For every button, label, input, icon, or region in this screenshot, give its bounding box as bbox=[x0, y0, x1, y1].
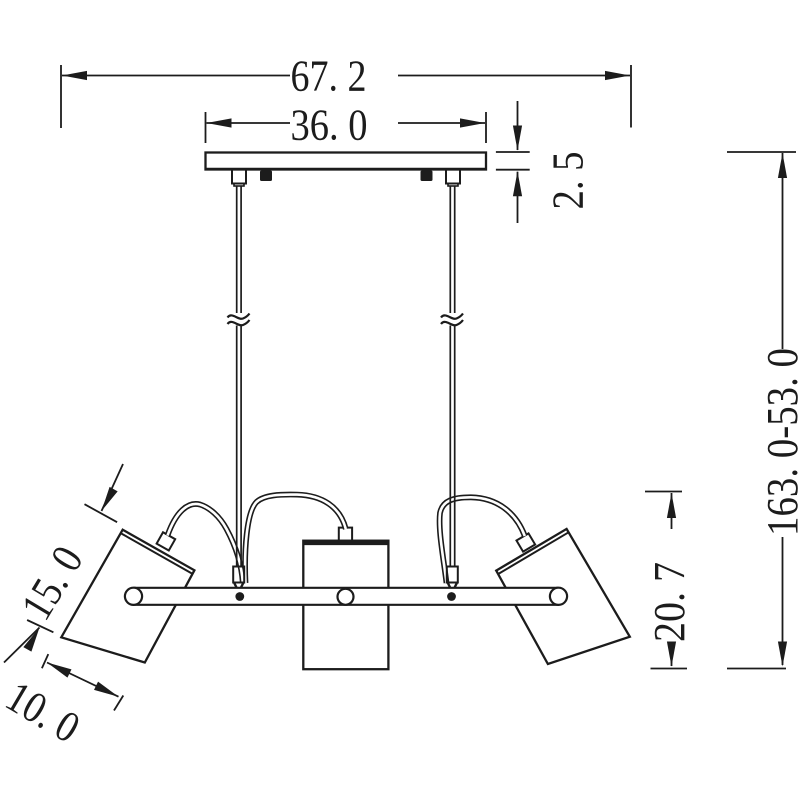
svg-text:67. 2: 67. 2 bbox=[291, 52, 367, 101]
dimension 67.2 extension lines bbox=[60, 65, 62, 128]
right suspension cable bbox=[450, 186, 454, 567]
left suspension cable bbox=[237, 186, 241, 567]
right lower cable connector bbox=[447, 567, 458, 583]
left cable break symbol bbox=[228, 314, 250, 319]
dimension 36.0 arrows bbox=[207, 118, 232, 127]
dimension 2.5 ticks bbox=[496, 151, 530, 153]
left lamp shade bbox=[61, 530, 194, 663]
dimension 163.0-53.0 ticks bbox=[727, 151, 796, 153]
svg-text:163. 0-53. 0: 163. 0-53. 0 bbox=[758, 348, 800, 536]
bar left end pivot bbox=[125, 588, 142, 605]
dimension 15.0 arrow lines bbox=[102, 464, 124, 511]
right gooseneck arm (outer) bbox=[440, 497, 525, 583]
right lamp shade bbox=[496, 529, 630, 664]
horizontal lamp bar bbox=[134, 588, 559, 605]
right black terminal block bbox=[421, 171, 433, 182]
middle pivot circle bbox=[338, 589, 354, 605]
left screw dot bbox=[235, 592, 244, 601]
dimension 36.0 lines bbox=[207, 122, 291, 124]
right connector taper bbox=[448, 583, 458, 588]
center gooseneck arm (outer) bbox=[245, 495, 346, 583]
right upper cable fitting bbox=[446, 170, 460, 184]
left lower cable connector bbox=[233, 567, 244, 583]
dimension 15.0 ticks bbox=[85, 504, 118, 522]
bar right end pivot bbox=[550, 588, 567, 605]
right screw dot bbox=[447, 592, 456, 601]
dimension 163.0-53.0 arrows bbox=[778, 153, 787, 178]
right shade lamp-holder neck bbox=[516, 533, 535, 551]
left shade top rim bbox=[122, 534, 194, 575]
gooseneck arm inner whites bbox=[168, 495, 525, 583]
dimension 36.0 extension lines bbox=[205, 112, 207, 143]
dimension 10.0 line bbox=[47, 663, 119, 697]
left upper cable fitting bbox=[232, 170, 246, 184]
right shade top rim bbox=[498, 532, 568, 574]
left connector taper bbox=[234, 583, 244, 588]
dimension 2.5 arrow lines bbox=[517, 101, 519, 150]
dimension 163.0-53.0 lines bbox=[782, 153, 784, 349]
dimension 10.0 arrows bbox=[45, 658, 72, 677]
dimension 2.5 arrows bbox=[513, 126, 522, 151]
svg-text:20. 7: 20. 7 bbox=[645, 562, 694, 642]
left black terminal block bbox=[260, 171, 272, 182]
ceiling canopy plate bbox=[206, 153, 487, 170]
dimension 67.2 lines bbox=[62, 75, 290, 77]
dimension 20.7 arrows bbox=[667, 493, 676, 518]
left gooseneck arm (outer) bbox=[168, 504, 243, 583]
dimension 20.7 lines bbox=[671, 493, 673, 529]
middle lamp shade bbox=[303, 541, 388, 670]
middle shade lamp-holder neck bbox=[339, 528, 352, 541]
dimension 10.0 ticks bbox=[42, 654, 48, 668]
svg-text:2. 5: 2. 5 bbox=[544, 152, 593, 210]
dimension 20.7 ticks bbox=[645, 491, 682, 493]
svg-text:36. 0: 36. 0 bbox=[291, 101, 368, 150]
dimension 15.0 arrows bbox=[97, 487, 117, 513]
middle shade top rim bbox=[303, 541, 388, 545]
left shade lamp-holder neck bbox=[157, 532, 176, 550]
right cable break symbol bbox=[441, 314, 463, 319]
dimension 67.2 arrows bbox=[62, 71, 87, 80]
